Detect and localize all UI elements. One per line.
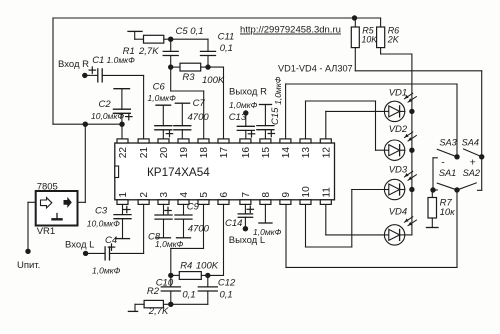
svg-text:C2: C2 bbox=[99, 99, 112, 110]
svg-text:6: 6 bbox=[219, 192, 230, 198]
svg-text:C1: C1 bbox=[92, 55, 104, 66]
svg-text:VD2: VD2 bbox=[389, 124, 408, 135]
svg-text:17: 17 bbox=[219, 147, 230, 159]
svg-text:VD1-VD4 - АЛ307: VD1-VD4 - АЛ307 bbox=[278, 64, 353, 74]
svg-text:R1: R1 bbox=[123, 46, 135, 57]
svg-text:R3: R3 bbox=[182, 72, 195, 83]
svg-text:4700: 4700 bbox=[188, 223, 210, 234]
svg-text:R4: R4 bbox=[180, 260, 192, 271]
svg-text:16: 16 bbox=[241, 147, 252, 159]
svg-text:VD1: VD1 bbox=[389, 88, 407, 99]
svg-text:C3: C3 bbox=[95, 206, 108, 217]
svg-text:4700: 4700 bbox=[188, 112, 210, 123]
svg-text:0,1: 0,1 bbox=[220, 290, 233, 301]
svg-text:SA3: SA3 bbox=[439, 138, 457, 148]
svg-text:C4: C4 bbox=[105, 235, 117, 246]
svg-text:Выход R: Выход R bbox=[229, 87, 267, 98]
svg-text:1: 1 bbox=[118, 192, 129, 198]
svg-text:10к: 10к bbox=[440, 207, 456, 218]
svg-text:10: 10 bbox=[301, 186, 312, 198]
svg-text:SA2: SA2 bbox=[463, 168, 480, 178]
svg-text:14: 14 bbox=[281, 147, 292, 159]
svg-text:2K: 2K bbox=[387, 35, 400, 45]
svg-text:100K: 100K bbox=[196, 260, 219, 271]
svg-text:18: 18 bbox=[199, 147, 210, 159]
svg-text:19: 19 bbox=[179, 147, 190, 159]
svg-text:2,7K: 2,7K bbox=[138, 46, 159, 57]
svg-text:22: 22 bbox=[118, 147, 129, 159]
svg-text:C6: C6 bbox=[153, 81, 166, 92]
svg-text:http://299792458.3dn.ru: http://299792458.3dn.ru bbox=[240, 25, 341, 36]
svg-text:15: 15 bbox=[261, 147, 272, 159]
svg-text:VD3: VD3 bbox=[389, 165, 408, 176]
svg-text:1,0мкФ: 1,0мкФ bbox=[92, 266, 121, 276]
svg-text:R2: R2 bbox=[147, 286, 160, 297]
svg-text:1,0мкФ: 1,0мкФ bbox=[155, 239, 184, 249]
svg-text:7: 7 bbox=[241, 192, 252, 198]
svg-text:SA4: SA4 bbox=[462, 138, 479, 148]
svg-text:3: 3 bbox=[159, 192, 170, 198]
svg-text:10K: 10K bbox=[362, 35, 379, 45]
svg-text:4: 4 bbox=[179, 192, 190, 198]
svg-text:C14: C14 bbox=[225, 218, 242, 229]
svg-text:C5 0,1: C5 0,1 bbox=[176, 26, 204, 37]
svg-text:7805: 7805 bbox=[37, 181, 58, 192]
svg-text:+: + bbox=[470, 156, 476, 168]
svg-text:Выход L: Выход L bbox=[229, 235, 265, 246]
svg-text:12: 12 bbox=[321, 147, 332, 159]
svg-text:10,0мкФ: 10,0мкФ bbox=[87, 219, 120, 229]
svg-text:2,7K: 2,7K bbox=[148, 306, 169, 317]
svg-text:10,0мкФ: 10,0мкФ bbox=[91, 111, 124, 121]
svg-text:-: - bbox=[441, 156, 445, 168]
svg-text:2: 2 bbox=[139, 192, 150, 198]
svg-text:1,0мкФ: 1,0мкФ bbox=[148, 93, 177, 103]
svg-text:КР174ХА54: КР174ХА54 bbox=[147, 166, 210, 179]
svg-text:VD4: VD4 bbox=[389, 206, 407, 217]
svg-text:0,1: 0,1 bbox=[182, 290, 195, 301]
svg-text:9: 9 bbox=[281, 192, 292, 198]
svg-text:C12: C12 bbox=[218, 278, 236, 289]
svg-text:0,1: 0,1 bbox=[220, 43, 233, 54]
svg-text:C7: C7 bbox=[193, 98, 206, 109]
svg-text:20: 20 bbox=[159, 147, 170, 159]
svg-text:C13: C13 bbox=[229, 112, 247, 123]
svg-text:21: 21 bbox=[139, 147, 150, 159]
svg-text:1,0мкФ: 1,0мкФ bbox=[229, 100, 258, 110]
svg-text:Вход R: Вход R bbox=[58, 59, 89, 70]
svg-text:SA1: SA1 bbox=[439, 168, 456, 178]
svg-text:8: 8 bbox=[261, 192, 272, 198]
svg-text:Вход L: Вход L bbox=[65, 239, 94, 250]
svg-text:Uпит.: Uпит. bbox=[17, 260, 40, 271]
svg-text:1,0мкФ: 1,0мкФ bbox=[273, 76, 283, 105]
svg-text:VR1: VR1 bbox=[37, 226, 55, 237]
svg-text:C15: C15 bbox=[270, 107, 281, 125]
svg-text:C11: C11 bbox=[218, 31, 235, 42]
svg-text:5: 5 bbox=[199, 192, 210, 198]
svg-text:C9: C9 bbox=[187, 201, 200, 212]
svg-text:100K: 100K bbox=[202, 75, 225, 86]
svg-text:11: 11 bbox=[321, 187, 332, 198]
svg-text:13: 13 bbox=[301, 147, 312, 159]
